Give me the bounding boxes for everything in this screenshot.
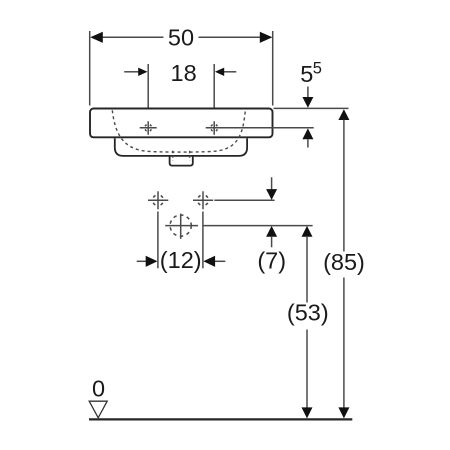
svg-text:5: 5 <box>300 61 313 87</box>
svg-text:(53): (53) <box>287 300 329 326</box>
svg-text:5: 5 <box>313 60 322 78</box>
svg-text:(85): (85) <box>323 249 365 275</box>
svg-text:50: 50 <box>168 25 194 51</box>
svg-text:(7): (7) <box>257 248 286 274</box>
svg-text:0: 0 <box>92 376 105 402</box>
svg-text:18: 18 <box>171 60 197 86</box>
svg-text:(12): (12) <box>160 247 202 273</box>
